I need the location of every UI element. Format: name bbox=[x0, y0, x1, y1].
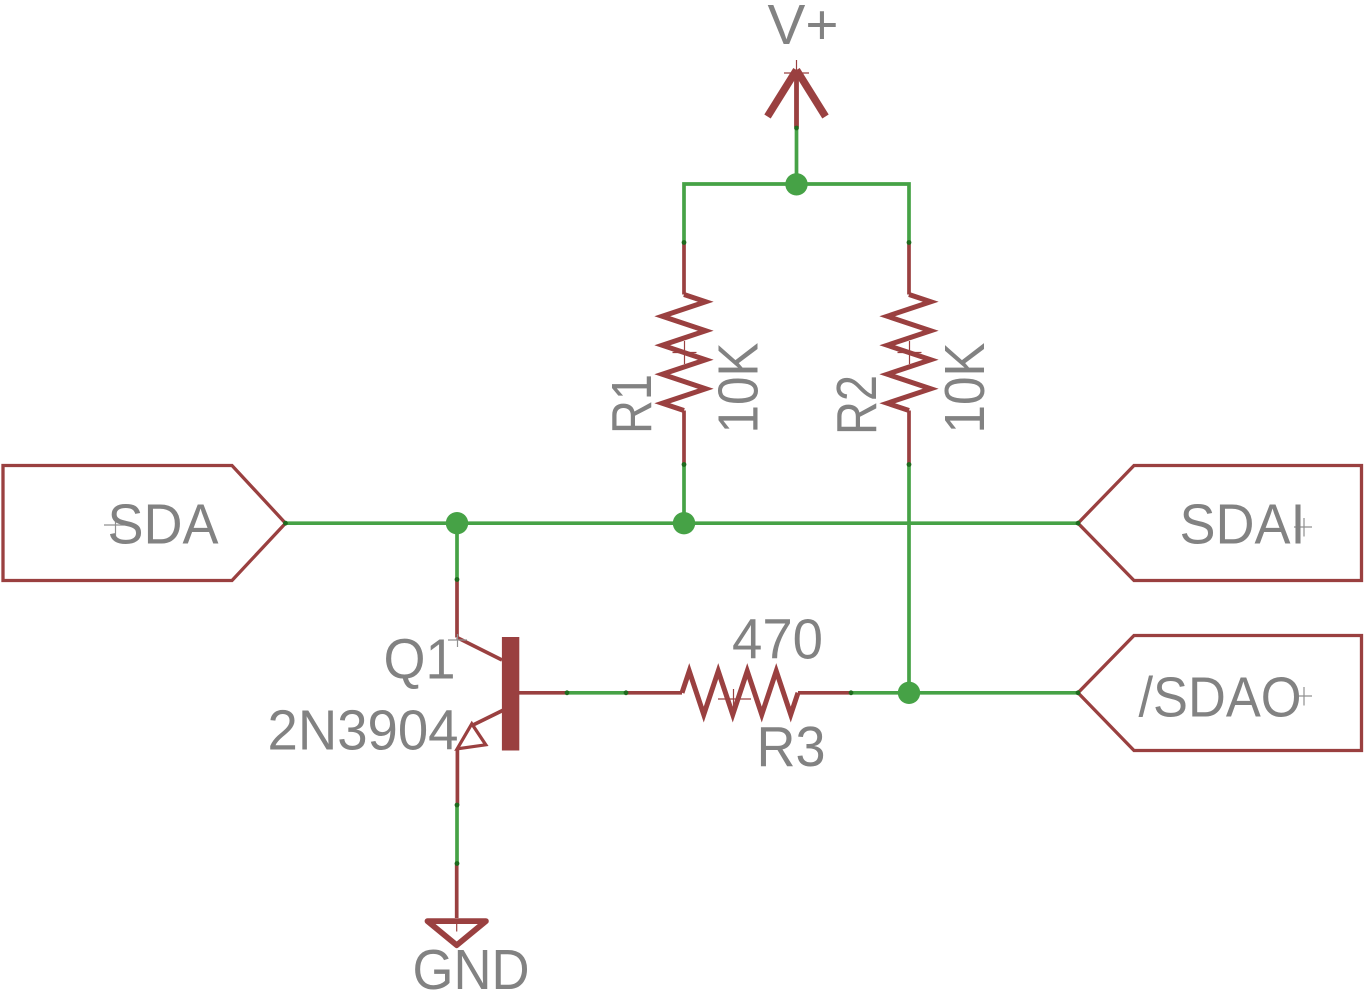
svg-text:SDAI: SDAI bbox=[1180, 493, 1306, 557]
svg-text:10K: 10K bbox=[707, 343, 771, 434]
svg-text:R1: R1 bbox=[600, 374, 664, 434]
svg-text:470: 470 bbox=[732, 608, 823, 672]
svg-text:Q1: Q1 bbox=[384, 628, 456, 692]
svg-text:SDA: SDA bbox=[108, 493, 219, 557]
svg-text:R3: R3 bbox=[757, 715, 826, 779]
svg-text:R2: R2 bbox=[825, 375, 889, 435]
svg-text:10K: 10K bbox=[933, 343, 997, 434]
svg-text:2N3904: 2N3904 bbox=[268, 699, 459, 763]
svg-text:/SDAO: /SDAO bbox=[1139, 666, 1302, 730]
svg-text:V+: V+ bbox=[768, 0, 839, 57]
svg-text:GND: GND bbox=[413, 938, 530, 993]
